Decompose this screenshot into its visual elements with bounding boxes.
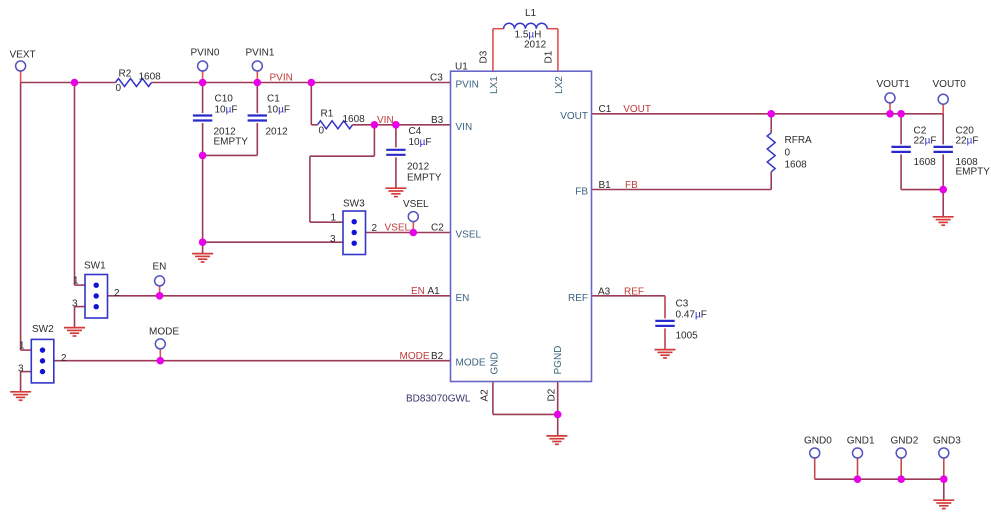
svg-text:REF: REF [568, 293, 588, 304]
svg-text:A1: A1 [428, 286, 441, 297]
svg-text:1608: 1608 [785, 160, 808, 171]
svg-text:MODE: MODE [456, 358, 486, 369]
svg-text:3: 3 [330, 234, 336, 245]
svg-text:2: 2 [61, 353, 67, 364]
svg-text:B2: B2 [431, 351, 444, 362]
svg-text:GND0: GND0 [804, 436, 832, 447]
svg-text:D2: D2 [547, 388, 558, 401]
svg-text:EN: EN [456, 293, 470, 304]
svg-text:1005: 1005 [676, 331, 699, 342]
svg-text:3: 3 [18, 364, 24, 375]
svg-text:1: 1 [331, 213, 337, 224]
svg-text:0: 0 [319, 126, 325, 137]
svg-text:B1: B1 [599, 180, 612, 191]
svg-text:GND3: GND3 [933, 436, 961, 447]
svg-text:EN: EN [411, 286, 425, 297]
svg-text:EN: EN [153, 262, 167, 273]
svg-text:C1: C1 [599, 104, 612, 115]
svg-text:PVIN: PVIN [456, 80, 479, 91]
svg-text:A3: A3 [598, 287, 611, 298]
svg-text:D1: D1 [544, 50, 555, 63]
svg-text:C2: C2 [431, 223, 444, 234]
svg-text:0.47µF: 0.47µF [676, 310, 707, 321]
svg-text:VIN: VIN [377, 115, 394, 126]
svg-text:SW3: SW3 [343, 199, 365, 210]
svg-text:VOUT: VOUT [560, 111, 588, 122]
svg-text:3: 3 [72, 299, 78, 310]
svg-text:R1: R1 [321, 109, 334, 120]
svg-text:C3: C3 [430, 73, 443, 84]
svg-text:EMPTY: EMPTY [407, 173, 442, 184]
svg-text:C1: C1 [267, 94, 280, 105]
svg-text:2012: 2012 [407, 162, 430, 173]
svg-text:LX1: LX1 [489, 76, 500, 94]
svg-text:FB: FB [625, 180, 638, 191]
svg-text:2012: 2012 [266, 127, 289, 138]
svg-text:0: 0 [785, 148, 791, 159]
svg-text:10µF: 10µF [215, 105, 238, 116]
svg-text:PGND: PGND [553, 346, 564, 375]
svg-text:GND: GND [490, 352, 501, 374]
svg-text:VOUT1: VOUT1 [877, 79, 911, 90]
svg-text:BD83070GWL: BD83070GWL [406, 394, 471, 405]
svg-text:SW1: SW1 [84, 261, 106, 272]
svg-text:VSEL: VSEL [456, 230, 482, 241]
svg-text:U1: U1 [455, 62, 468, 73]
svg-text:1: 1 [19, 341, 25, 352]
svg-text:1608: 1608 [914, 157, 937, 168]
svg-text:GND2: GND2 [891, 436, 919, 447]
svg-text:2012: 2012 [524, 40, 547, 51]
svg-text:EMPTY: EMPTY [956, 167, 991, 178]
svg-text:C10: C10 [215, 94, 234, 105]
svg-text:LX2: LX2 [554, 76, 565, 94]
svg-text:VSEL: VSEL [403, 199, 429, 210]
svg-text:RFRA: RFRA [785, 135, 813, 146]
svg-text:B3: B3 [431, 115, 444, 126]
svg-text:PVIN1: PVIN1 [246, 48, 275, 59]
svg-text:EMPTY: EMPTY [214, 137, 249, 148]
svg-text:PVIN0: PVIN0 [191, 48, 220, 59]
svg-text:2: 2 [114, 288, 120, 299]
svg-text:VOUT: VOUT [623, 104, 651, 115]
svg-text:1: 1 [73, 276, 79, 287]
svg-text:D3: D3 [479, 50, 490, 63]
svg-text:1608: 1608 [139, 72, 162, 83]
svg-text:VSEL: VSEL [385, 223, 411, 234]
svg-text:0: 0 [116, 83, 122, 94]
svg-text:A2: A2 [480, 389, 491, 402]
svg-text:FB: FB [575, 187, 588, 198]
svg-text:VIN: VIN [456, 122, 473, 133]
svg-text:1608: 1608 [343, 114, 366, 125]
svg-text:REF: REF [624, 287, 644, 298]
svg-text:10µF: 10µF [409, 137, 432, 148]
svg-text:R2: R2 [119, 69, 132, 80]
svg-text:SW2: SW2 [32, 324, 54, 335]
svg-text:C3: C3 [676, 299, 689, 310]
svg-text:VOUT0: VOUT0 [933, 79, 967, 90]
svg-text:MODE: MODE [400, 351, 430, 362]
svg-text:PVIN: PVIN [270, 73, 293, 84]
svg-text:VEXT: VEXT [10, 50, 36, 61]
svg-text:10µF: 10µF [267, 105, 290, 116]
svg-text:2: 2 [372, 223, 378, 234]
svg-text:22µF: 22µF [914, 136, 937, 147]
svg-text:C4: C4 [409, 126, 422, 137]
svg-text:L1: L1 [525, 8, 537, 19]
svg-text:GND1: GND1 [847, 436, 875, 447]
svg-text:22µF: 22µF [956, 136, 979, 147]
svg-text:MODE: MODE [149, 327, 179, 338]
